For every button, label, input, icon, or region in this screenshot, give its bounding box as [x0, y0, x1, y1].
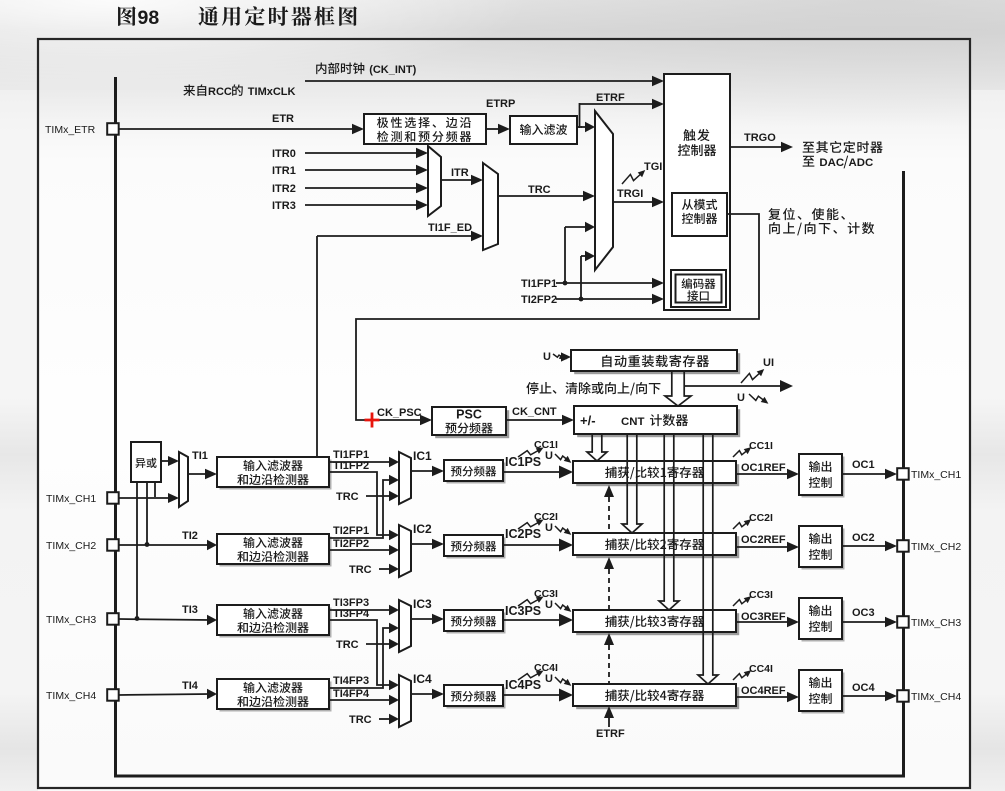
label CC3I right [749, 589, 773, 601]
wire ITR3 [305, 200, 428, 210]
label TI1F_ED [428, 222, 472, 234]
squiggle CC4I right [733, 670, 751, 680]
svg-text:TIMx_CH2: TIMx_CH2 [46, 540, 96, 552]
wire XOR in2 [145, 482, 150, 547]
wire ETR [119, 124, 364, 134]
svg-text:ETRF: ETRF [596, 728, 625, 740]
svg-text:IC2PS: IC2PS [505, 527, 541, 541]
label TI2FP1 [333, 525, 369, 537]
svg-text:ETRP: ETRP [486, 98, 515, 110]
label TRGO [744, 132, 776, 144]
svg-text:IC3PS: IC3PS [505, 604, 541, 618]
mux IC3-selector [399, 600, 411, 652]
svg-text:ITR: ITR [451, 167, 469, 179]
wire TI1F_ED [317, 231, 483, 457]
hollow arrow ARR to CNT [665, 371, 691, 406]
wire TRC ch4 [379, 714, 399, 724]
label OC1 [852, 459, 875, 471]
svg-text:IC1PS: IC1PS [505, 455, 541, 469]
svg-text:(CK_INT): (CK_INT) [369, 64, 416, 76]
pin TIMx_CH1 right [897, 468, 909, 480]
label ITR2 [272, 183, 296, 195]
svg-text:OC1: OC1 [852, 459, 875, 471]
svg-text:ETRF: ETRF [596, 92, 625, 104]
label TIMx_CH4 right [911, 691, 961, 703]
dashed arrow CCR3 to CCR2 [604, 557, 614, 610]
label CK_CNT [512, 406, 557, 418]
label TIMx_CH3 right [911, 617, 961, 629]
block prescaler ch3 [444, 610, 506, 634]
svg-text:TRC: TRC [528, 184, 551, 196]
svg-text:ITR0: ITR0 [272, 148, 296, 160]
svg-text:OC2REF: OC2REF [741, 534, 786, 546]
hollow arrow CNT to CCR3 [659, 434, 679, 610]
label TIMx_CH4 left [46, 690, 96, 702]
label TIMx_ETR [45, 124, 96, 136]
pin TIMx_CH1 left [107, 492, 119, 504]
wire TI4 [119, 689, 217, 699]
squiggle CC1I right [733, 447, 751, 457]
label CK_PSC [377, 407, 422, 419]
label TI4FP3 [333, 675, 369, 687]
block PSC-prescaler [432, 407, 509, 438]
label ETRP [486, 98, 515, 110]
wire TI1FP2 [329, 472, 399, 540]
wire TI1 [188, 469, 217, 479]
bottom bus line [114, 775, 905, 778]
block output-control ch2 [799, 526, 845, 570]
wire TRC top [498, 191, 595, 201]
label TIMx_CH2 left [46, 540, 96, 552]
wire ETRP [486, 124, 510, 134]
block prescaler ch2 [444, 535, 506, 559]
label OC3 [852, 607, 875, 619]
block capture-compare-register 2 box [573, 533, 739, 558]
wire IC4 [411, 689, 444, 699]
right bus line [902, 171, 905, 777]
svg-text:TIMx_CH4: TIMx_CH4 [911, 691, 961, 703]
wire ITR2 [305, 183, 428, 193]
wire OC2 [842, 541, 897, 551]
label 来自RCC的TIMxCLK [183, 84, 295, 98]
label TIMx_CH1 left [46, 493, 96, 505]
svg-text:CC4I: CC4I [749, 663, 773, 675]
wire TRC ch1 [366, 491, 399, 501]
block input-filter-edge-detector ch4 [217, 679, 332, 712]
label TI1FP1 top [521, 278, 557, 290]
block input-filter-edge-detector ch1 [217, 457, 332, 490]
wire OC3 [842, 617, 897, 627]
svg-text:ITR2: ITR2 [272, 183, 296, 195]
squiggle CC3I right [733, 596, 751, 606]
label IC1 [413, 449, 432, 463]
wire IC1PS [503, 466, 573, 479]
label ITR1 [272, 165, 296, 177]
label OC2REF [741, 534, 786, 546]
label TIMx_CH3 left [46, 614, 96, 626]
wire TI2FP2 branch [579, 251, 595, 302]
squiggle UI [741, 369, 764, 383]
svg-text:IC4PS: IC4PS [505, 678, 541, 692]
label U ch2 [545, 522, 553, 534]
label TI4FP4 [333, 688, 370, 700]
wire IC4PS [503, 689, 573, 702]
svg-text:ADC: ADC [849, 157, 874, 169]
svg-text:RCC: RCC [208, 86, 232, 98]
label ETRF bottom [596, 728, 625, 740]
block CNT-counter [574, 406, 740, 437]
wire CK_INT [305, 76, 664, 86]
svg-text:TI2FP2: TI2FP2 [521, 294, 557, 306]
dashed arrow CCR4 to CCR3 [604, 633, 614, 684]
wire TRC ch3 [366, 639, 399, 649]
svg-text:IC2: IC2 [413, 522, 432, 536]
label TI2FP2 [333, 538, 369, 550]
label ITR3 [272, 200, 296, 212]
label CC1I right [749, 440, 773, 452]
svg-text:TIMx_CH3: TIMx_CH3 [911, 617, 961, 629]
svg-text:TI4: TI4 [182, 680, 199, 692]
label OC1REF [741, 462, 786, 474]
squiggle CC2I left [518, 520, 544, 530]
pin TIMx_CH2 right [897, 540, 909, 552]
pin TIMx_CH2 left [107, 539, 119, 551]
wire TI1FP1 [329, 457, 399, 467]
label capture-compare-register 2 [605, 538, 704, 551]
wire IC2PS [503, 539, 573, 552]
svg-text:OC2: OC2 [852, 532, 875, 544]
wire OC1REF [736, 469, 799, 479]
label TI3FP4 [333, 608, 370, 620]
label IC1PS [505, 455, 541, 469]
block auto-reload-register [571, 350, 740, 374]
squiggle U ch4 [555, 677, 571, 686]
wire U event out [684, 380, 793, 392]
wire TI2 [119, 540, 217, 550]
dashed arrow CCR2 to CCR1 [604, 485, 614, 533]
svg-text:CC1I: CC1I [749, 440, 773, 452]
label CC4I right [749, 663, 773, 675]
svg-text:ETR: ETR [272, 113, 294, 125]
svg-text:U: U [737, 392, 745, 404]
wire TRGO [730, 142, 793, 152]
wire TI2FP2 [329, 545, 399, 555]
label TI3FP3 [333, 597, 369, 609]
label TRC ch3 [336, 639, 359, 651]
block input-filter [510, 116, 577, 144]
block prescaler ch1 [444, 460, 506, 484]
svg-text:CK_CNT: CK_CNT [512, 406, 557, 418]
svg-text:OC1REF: OC1REF [741, 462, 786, 474]
label U at ARR [543, 351, 551, 363]
label U ch1 [545, 450, 553, 462]
svg-text:OC3: OC3 [852, 607, 875, 619]
wire TI4FP3 [329, 623, 399, 688]
block input-filter-edge-detector ch3 [217, 605, 332, 638]
label ETRF [596, 92, 625, 104]
wire IC2 [411, 539, 444, 549]
label OC3REF [741, 611, 786, 623]
wire ITR [441, 175, 483, 185]
svg-text:U: U [545, 522, 553, 534]
block capture-compare-register 1 box [573, 461, 739, 486]
squiggle U ch2 [555, 526, 571, 535]
block prescaler ch4 [444, 685, 506, 709]
block capture-compare-register 3 box [573, 610, 739, 635]
wire TI3FP3 [329, 605, 399, 615]
mux ITR-selector [428, 146, 441, 216]
squiggle CC4I left [518, 671, 544, 681]
svg-text:ITR3: ITR3 [272, 200, 296, 212]
label TIMx_CH1 right [911, 469, 961, 481]
wire TI1FP1 to encoder [556, 278, 664, 288]
wire TI4FP4 [329, 695, 399, 705]
pin TIMx_CH4 left [107, 689, 119, 701]
label TI3 [182, 604, 198, 616]
label ITR [451, 167, 469, 179]
svg-text:TRGO: TRGO [744, 132, 776, 144]
svg-text:TGI: TGI [644, 161, 662, 173]
label TI1 [192, 450, 208, 462]
label IC2PS [505, 527, 541, 541]
wire CK_CNT [506, 415, 574, 425]
label OC2 [852, 532, 875, 544]
hollow arrow CNT to CCR4 [698, 434, 718, 684]
wire IC3PS [503, 614, 573, 627]
wire TRC ch2 [379, 564, 399, 574]
svg-text:TI1FP1: TI1FP1 [521, 278, 557, 290]
wire XOR in1 [154, 482, 156, 497]
mux IC4-selector [399, 675, 411, 727]
squiggle U ch1 [555, 454, 571, 463]
svg-text:TRC: TRC [349, 564, 372, 576]
wire OC1 [842, 469, 897, 479]
label U right [737, 392, 745, 404]
wire TRGI [613, 197, 664, 207]
label OC4 [852, 682, 876, 694]
svg-text:98: 98 [138, 7, 160, 29]
svg-text:UI: UI [763, 357, 774, 369]
svg-text:TRC: TRC [336, 491, 359, 503]
wire slave-mode to CK_PSC [356, 214, 759, 425]
label OC4REF [741, 685, 786, 697]
wire CH1 to mux [119, 493, 179, 503]
squiggle CC2I right [733, 519, 751, 529]
svg-text:OC4REF: OC4REF [741, 685, 786, 697]
wire OC4REF [736, 692, 799, 702]
block output-control ch1 [799, 454, 845, 498]
wire OC2REF [736, 542, 799, 552]
block input-filter-edge-detector ch2 [217, 534, 332, 567]
label TI2 [182, 530, 198, 542]
squiggle U right [749, 394, 768, 404]
block slave-mode-controller [672, 193, 727, 236]
squiggle U ch3 [555, 603, 571, 612]
label CC2I left [534, 511, 558, 523]
svg-text:TI3FP4: TI3FP4 [333, 608, 370, 620]
label 复位、使能、 [768, 208, 845, 220]
label TGI [644, 161, 662, 173]
label 停止、清除或向上/向下 [526, 382, 660, 395]
wire IC3 [411, 614, 444, 624]
wire ITR0 [305, 148, 428, 158]
wire IC1 [411, 466, 444, 476]
label IC4 [413, 672, 432, 686]
label TRGI [617, 188, 643, 200]
label TRC ch4 [349, 714, 372, 726]
wire filter-out up [577, 103, 582, 128]
svg-text:IC3: IC3 [413, 597, 432, 611]
wire TI3FP4 [329, 620, 399, 690]
svg-text:TI4FP3: TI4FP3 [333, 675, 369, 687]
label TI1FP2 [333, 460, 369, 472]
svg-text:DAC: DAC [819, 157, 844, 169]
title 图98 通用定时器框图 [118, 6, 357, 29]
label CC1I left [534, 439, 558, 451]
svg-text:TI2: TI2 [182, 530, 198, 542]
mux IC2-selector [399, 525, 411, 577]
svg-text:TI2FP1: TI2FP1 [333, 525, 369, 537]
mux IC1-selector [399, 452, 411, 504]
svg-text:IC1: IC1 [413, 449, 432, 463]
squiggle CC1I left [518, 448, 544, 458]
svg-text:TIMx_CH1: TIMx_CH1 [911, 469, 961, 481]
wire XOR in3 [135, 482, 140, 621]
svg-text:TIMx_ETR: TIMx_ETR [45, 124, 96, 136]
wire filter to trigger-mux [581, 122, 595, 132]
hollow arrow CNT to CCR1 [587, 434, 607, 461]
svg-text:U: U [545, 450, 553, 462]
wire TI2FP2 to encoder [556, 294, 664, 304]
svg-text:CNT: CNT [621, 416, 644, 428]
label U ch4 [545, 673, 553, 685]
svg-text:TRC: TRC [349, 714, 372, 726]
svg-text:TRC: TRC [336, 639, 359, 651]
pin TIMx_CH4 right [897, 690, 909, 702]
block trigger-controller [664, 74, 730, 310]
block XOR 异或 [131, 442, 161, 482]
label TI2FP2 top [521, 294, 557, 306]
label UI [763, 357, 774, 369]
svg-text:CC2I: CC2I [749, 512, 773, 524]
svg-text:TIMx_CH4: TIMx_CH4 [46, 690, 96, 702]
block capture-compare-register 4 box [573, 684, 739, 709]
block polarity-selector [364, 114, 486, 144]
block encoder-interface [671, 270, 726, 307]
label 内部时钟 (CK_INT) [316, 62, 416, 76]
label IC3 [413, 597, 432, 611]
label TI4 [182, 680, 199, 692]
left bus line [114, 77, 117, 777]
label CC2I right [749, 512, 773, 524]
wire ETRF to CCR4 [604, 706, 614, 727]
label capture-compare-register 4 [605, 689, 704, 702]
block output-control ch3 [799, 598, 845, 642]
label capture-compare-register 3 [605, 615, 704, 628]
mux TRC-selector [483, 163, 498, 250]
svg-text:TI3: TI3 [182, 604, 198, 616]
wire TI3 [119, 615, 217, 625]
svg-text:TIMxCLK: TIMxCLK [248, 86, 296, 98]
svg-text:TRGI: TRGI [617, 188, 643, 200]
label IC2 [413, 522, 432, 536]
label ETR [272, 113, 294, 125]
pin TIMx_ETR [107, 123, 119, 135]
pin TIMx_CH3 right [897, 616, 909, 628]
label CC4I left [534, 662, 558, 674]
svg-text:U: U [545, 599, 553, 611]
svg-text:TI1FP2: TI1FP2 [333, 460, 369, 472]
wire ETRF [579, 99, 664, 109]
label TRC top [528, 184, 551, 196]
squiggle CC3I left [518, 597, 544, 607]
label ITR0 [272, 148, 296, 160]
svg-text:OC4: OC4 [852, 682, 876, 694]
svg-text:ITR1: ITR1 [272, 165, 296, 177]
svg-text:TIMx_CH2: TIMx_CH2 [911, 541, 961, 553]
mux TI1-selector [179, 452, 188, 507]
wire OC4 [842, 691, 897, 701]
mux TRGI-selector [595, 111, 613, 270]
label IC4PS [505, 678, 541, 692]
svg-text:U: U [545, 673, 553, 685]
wire XOR out [161, 456, 179, 466]
label TRC ch2 [349, 564, 372, 576]
hollow arrow CNT to CCR2 [622, 434, 642, 533]
svg-text:PSC: PSC [456, 408, 482, 422]
label U ch3 [545, 599, 553, 611]
label CC3I left [534, 588, 558, 600]
squiggle U at ARR [553, 353, 567, 359]
label 至其它定时器 [803, 141, 883, 153]
svg-text:TI1: TI1 [192, 450, 208, 462]
block output-control ch4 [799, 670, 845, 714]
label TRC ch1 [336, 491, 359, 503]
squiggle TGI [622, 170, 645, 184]
svg-text:TI1F_ED: TI1F_ED [428, 222, 472, 234]
wire TI2FP1 [329, 475, 399, 538]
arrow into ARR [561, 352, 571, 361]
red cross annotation [365, 413, 380, 428]
wire TI1FP1 branch [563, 222, 595, 286]
svg-text:IC4: IC4 [413, 672, 432, 686]
svg-text:TIMx_CH1: TIMx_CH1 [46, 493, 96, 505]
label TI1FP1 [333, 449, 369, 461]
label IC3PS [505, 604, 541, 618]
svg-text:TI4FP4: TI4FP4 [333, 688, 370, 700]
svg-text:TIMx_CH3: TIMx_CH3 [46, 614, 96, 626]
wire ITR1 [305, 165, 428, 175]
label capture-compare-register 1 [605, 466, 704, 479]
svg-text:TI2FP2: TI2FP2 [333, 538, 369, 550]
label TIMx_CH2 right [911, 541, 961, 553]
svg-text:U: U [543, 351, 551, 363]
svg-text:+/-: +/- [580, 413, 596, 428]
svg-text:CC3I: CC3I [749, 589, 773, 601]
svg-text:CK_PSC: CK_PSC [377, 407, 422, 419]
wire OC3REF [736, 617, 799, 627]
label 至 DAC/ADC [803, 156, 874, 169]
label 向上/向下、计数 [769, 222, 874, 235]
pin TIMx_CH3 left [107, 613, 119, 625]
